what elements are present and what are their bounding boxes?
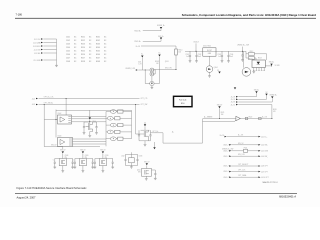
svg-text:E565: E565: [96, 51, 100, 53]
wire J4-2 net: [39, 98, 140, 100]
svg-text:Q510: Q510: [105, 155, 109, 157]
wire output across: [163, 142, 203, 144]
resistor R561: [116, 111, 117, 113]
svg-text:J4-6 SW_: J4-6 SW_: [261, 156, 268, 158]
wire output down: [162, 133, 164, 143]
ground C533: [221, 61, 224, 63]
svg-text:SW_5V: SW_5V: [238, 143, 244, 145]
svg-text:C534: C534: [230, 54, 234, 56]
capacitor C555: [149, 130, 151, 140]
wire SEL to bus: [43, 52, 56, 54]
wire FL501 bottom: [126, 165, 138, 167]
wire U502 left pin: [44, 119, 57, 121]
power arrow net stub: [154, 142, 156, 147]
wire supply to Q506: [89, 120, 91, 123]
wire comparator supply drop: [219, 108, 221, 118]
wire SW_B+ row 2: [143, 40, 161, 42]
wire B+_OK row: [227, 136, 258, 138]
transistor Q508: [59, 159, 66, 166]
wire Q506 source: [90, 131, 93, 133]
svg-text:B+: B+: [141, 54, 143, 56]
svg-text:U505-7: U505-7: [223, 144, 228, 146]
svg-text:C558: C558: [139, 155, 143, 157]
svg-text:7-186: 7-186: [16, 14, 23, 17]
wire Q507 gate feed across: [136, 133, 145, 135]
svg-text:UNSW_B+_SW: UNSW_B+_SW: [237, 45, 249, 47]
svg-text:1uH: 1uH: [139, 64, 142, 66]
svg-text:R512: R512: [250, 51, 254, 53]
wire VR501 to ground: [151, 86, 153, 87]
resistor R512: [246, 53, 248, 55]
wire regulator rail: [185, 50, 246, 52]
svg-text:10uF: 10uF: [230, 56, 234, 58]
svg-text:5V SW: 5V SW: [275, 65, 280, 67]
svg-text:E566: E566: [96, 54, 100, 56]
svg-text:SW_5V: SW_5V: [51, 145, 57, 147]
svg-text:U505-7: U505-7: [223, 156, 228, 158]
wire OPT_DATA row: [231, 176, 258, 178]
wire loop left of U502: [55, 110, 57, 138]
transistor Q504: [206, 66, 213, 73]
pin arrow J4-1: [258, 136, 260, 138]
svg-text:E568: E568: [96, 61, 100, 63]
capacitor C551: [84, 121, 90, 123]
svg-text:J4-1 B+_: J4-1 B+_: [261, 136, 268, 138]
capacitor C559: [152, 169, 156, 171]
ground VR501: [151, 87, 154, 89]
svg-text:Q509: Q509: [85, 155, 89, 157]
svg-text:OPT_SW_B+: OPT_SW_B+: [44, 102, 54, 104]
svg-text:E562: E562: [96, 40, 100, 42]
svg-text:J4-4 SW_: J4-4 SW_: [261, 145, 268, 147]
svg-text:F501: F501: [244, 147, 248, 149]
wire Q501 to VR501: [151, 76, 153, 81]
wire Q507 source bus: [139, 140, 151, 142]
wire VR504 pin comb: [253, 68, 255, 71]
svg-text:B50: B50: [181, 103, 184, 105]
svg-text:UNSW_9.3V: UNSW_9.3V: [125, 68, 135, 70]
pin arrow J4-10: [258, 176, 260, 178]
wire flag row 5 to bus: [123, 138, 132, 140]
svg-text:OPT_SW: OPT_SW: [141, 104, 148, 106]
wire flag row 2 to bus: [120, 117, 132, 119]
wire flag row 3 to bus: [123, 124, 132, 126]
ground Q509: [82, 171, 85, 173]
wire Q510 source: [102, 166, 104, 171]
wire flag row 4 to bus: [120, 131, 132, 133]
svg-text:R510: R510: [178, 49, 182, 51]
wire Q508 source: [62, 166, 64, 171]
wire Q501 output: [154, 69, 176, 71]
svg-text:J2-4 CSX: J2-4 CSX: [34, 49, 42, 51]
capacitor C531: [189, 51, 191, 60]
ground Q506: [88, 135, 91, 137]
svg-text:R551: R551: [81, 37, 85, 39]
svg-text:R552: R552: [81, 40, 85, 42]
svg-text:OPT_SELECT: OPT_SELECT: [238, 164, 248, 166]
svg-text:Schematics, Component Location: Schematics, Component Location Diagrams,…: [182, 13, 316, 17]
op-amp U504: [236, 116, 240, 120]
svg-text:U505-7: U505-7: [223, 171, 228, 173]
svg-text:J4-8 OPT: J4-8 OPT: [261, 166, 268, 168]
capacitor C557: [136, 154, 138, 165]
power arrow Q506 supply: [89, 110, 91, 117]
wire J4-3 net: [39, 104, 140, 106]
fuse F501: [244, 149, 248, 152]
resistor R562: [113, 117, 114, 119]
wire R510 to Q503 output node: [175, 55, 177, 70]
ground C552: [95, 133, 98, 135]
wire supply to Q511: [146, 165, 148, 168]
transistor Q501 lower: [150, 72, 154, 76]
wire J5-4 down: [238, 104, 272, 106]
wire Q511 source: [145, 176, 147, 178]
capacitor C556: [124, 154, 126, 165]
wire Q507 gate feed down: [135, 104, 136, 105]
ground Q507: [144, 144, 147, 146]
svg-text:J2-5 SEL: J2-5 SEL: [34, 53, 41, 55]
resistor R522: [245, 117, 248, 119]
svg-text:C531: C531: [185, 54, 189, 56]
svg-text:R521: R521: [221, 112, 225, 114]
svg-text:R553: R553: [81, 44, 85, 46]
svg-text:C541: C541: [66, 37, 70, 39]
svg-text:OPT_B+_CTL: OPT_B+_CTL: [44, 96, 54, 98]
svg-text:E563: E563: [96, 44, 100, 46]
svg-text:47K: 47K: [273, 111, 276, 113]
svg-text:C545: C545: [66, 51, 70, 53]
wire FL501 top: [126, 153, 138, 155]
capacitor C532: [195, 51, 197, 60]
svg-text:J4-3: J4-3: [32, 104, 35, 106]
svg-text:J4-2: J4-2: [32, 98, 35, 100]
svg-text:C546: C546: [66, 54, 70, 56]
svg-text:R558: R558: [81, 61, 85, 63]
wire J5-3 to supply: [238, 101, 272, 103]
wire OPT_CLK row: [231, 171, 258, 173]
svg-text:Q504: Q504: [214, 67, 218, 69]
svg-text:OPT_CTL: OPT_CTL: [141, 98, 148, 100]
svg-text:SW_9.3V: SW_9.3V: [165, 68, 173, 70]
wire J5-1 to supply: [238, 96, 256, 98]
wire U502 feed vertical: [65, 99, 67, 116]
wire UNSW_B+ row 1: [143, 30, 161, 32]
transistor Q505: [242, 68, 251, 77]
wire Q509 source: [82, 166, 84, 171]
ground bus ground symbol: [55, 65, 58, 67]
wire DATA to bus: [43, 42, 56, 44]
power arrow SW_B+: [160, 38, 162, 40]
svg-text:SW_B+: SW_B+: [269, 61, 275, 63]
capacitor Q508 right: [66, 158, 72, 160]
resistor R513: [246, 57, 248, 59]
power arrow supply B: [265, 94, 267, 96]
wire U502 outputs: [72, 115, 107, 117]
svg-text:R513: R513: [258, 58, 262, 60]
svg-text:C542: C542: [66, 40, 70, 42]
svg-text:R504 B+: R504 B+: [134, 31, 141, 33]
wire comparator ref input: [203, 121, 235, 123]
ground Q508 left cap: [53, 167, 56, 169]
wire R508 into VR501: [154, 83, 159, 85]
transistor Q501 upper: [150, 68, 154, 72]
ground Q508: [61, 171, 64, 173]
wire ground bus vertical: [56, 39, 58, 65]
svg-text:OPT_B+: OPT_B+: [152, 131, 158, 133]
header rule: [15, 17, 316, 19]
resistor R563: [116, 124, 117, 126]
wire SW_5V row: [231, 144, 258, 146]
power arrow option net: [234, 87, 236, 89]
wire FL501 stub top: [130, 152, 132, 154]
svg-text:R556: R556: [81, 54, 85, 56]
capacitor C552: [93, 121, 97, 123]
svg-text:SW_B+: SW_B+: [158, 36, 164, 38]
ground C531: [189, 61, 192, 63]
footer rule: [15, 193, 297, 195]
capacitor C554: [138, 130, 140, 140]
net flag E571: [106, 111, 111, 113]
svg-text:August 24, 2007: August 24, 2007: [17, 195, 36, 199]
transistor Q506: [86, 122, 93, 132]
transistor Q507: [141, 129, 150, 131]
inductor L501 drop: [141, 58, 143, 70]
svg-text:10uF: 10uF: [198, 56, 202, 58]
wire loop top horizontal: [56, 109, 132, 111]
svg-text:U501 7805: U501 7805: [203, 45, 211, 47]
power arrow supply C: [271, 96, 273, 98]
wire OPT_SELECT row: [231, 165, 258, 167]
wire left return drop to cell: [62, 147, 64, 150]
svg-text:10K: 10K: [221, 114, 224, 116]
transistor Q510: [99, 159, 106, 166]
ground FL501: [130, 166, 132, 167]
svg-text:SW_9.3V: SW_9.3V: [238, 154, 246, 156]
transistor Q509: [79, 159, 86, 166]
svg-text:Fail Safe: Fail Safe: [179, 100, 186, 102]
net flag E573: [106, 124, 111, 126]
svg-text:R522: R522: [249, 117, 253, 119]
svg-text:R505 B+: R505 B+: [134, 41, 141, 43]
svg-text:SW_B+: SW_B+: [254, 89, 260, 91]
svg-text:C543: C543: [66, 44, 70, 46]
capacitor Q510 right: [107, 158, 113, 160]
wire VR504 to 5V out: [265, 65, 271, 67]
wire Q507 to ground: [144, 141, 146, 144]
filter FL501: [129, 158, 135, 163]
ground Q504: [208, 76, 211, 78]
wire supply to Q510: [102, 154, 104, 159]
wire output up to comparator: [202, 119, 204, 143]
svg-text:Q501: Q501: [165, 61, 169, 63]
capacitor C534: [227, 51, 229, 60]
svg-text:J5-1 E: J5-1 E: [231, 96, 236, 98]
svg-text:J4-5 UNS: J4-5 UNS: [261, 151, 268, 153]
ground Q510 right cap: [111, 167, 114, 169]
ground C535: [241, 60, 244, 62]
svg-text:Q508: Q508: [65, 155, 69, 157]
capacitor C535: [241, 51, 243, 59]
ground Q511: [145, 179, 148, 181]
pin arrow J4-4: [258, 144, 260, 146]
svg-text:E561: E561: [96, 37, 100, 39]
wire SW_9.3V row: [231, 155, 258, 157]
resistor R523: [259, 117, 262, 119]
ground Q510 left cap: [94, 167, 97, 169]
wire MISO to bus: [43, 45, 56, 47]
net flag E574: [106, 131, 108, 133]
svg-text:U500-8: U500-8: [193, 42, 198, 44]
svg-text:U505-7: U505-7: [223, 150, 228, 152]
wire Q504 emitter: [209, 72, 211, 75]
wire U503 outputs: [73, 138, 107, 140]
power arrow supply A: [255, 91, 257, 93]
svg-text:B+: B+: [159, 53, 161, 55]
svg-text:U505-7: U505-7: [223, 166, 228, 168]
wire supply to Q509: [82, 154, 84, 159]
svg-text:MAEPF-27782-O: MAEPF-27782-O: [263, 181, 279, 184]
svg-text:L501: L501: [138, 62, 142, 64]
svg-text:R554: R554: [81, 47, 85, 49]
svg-text:J4-9 OPT: J4-9 OPT: [261, 171, 268, 173]
pin arrow J4-5: [258, 150, 260, 152]
svg-text:J2-3 MISO: J2-3 MISO: [33, 46, 41, 48]
wire left return horizontal: [44, 146, 63, 148]
net flag E575: [106, 138, 111, 140]
resistor R564: [113, 131, 114, 133]
wire CSX to bus: [43, 49, 56, 51]
note box fail safe: [174, 96, 193, 106]
svg-text:E567: E567: [96, 58, 100, 60]
ground C551: [83, 133, 86, 135]
wire input to Q501: [138, 69, 150, 71]
svg-text:.1uF: .1uF: [186, 56, 189, 58]
svg-text:R557: R557: [81, 58, 85, 60]
ground Q509 left cap: [74, 167, 77, 169]
svg-text:.1uF: .1uF: [218, 56, 221, 58]
transistor Q511: [142, 169, 152, 177]
svg-text:U505-7: U505-7: [223, 177, 228, 179]
wire U501 ground leg: [209, 56, 211, 65]
svg-text:OPT_CLK: OPT_CLK: [238, 170, 246, 172]
pin arrow J4-8: [258, 165, 260, 167]
net flag E572: [106, 117, 108, 119]
capacitor Q510 left: [95, 158, 99, 160]
wire Q507 output: [151, 132, 164, 134]
wire J5-2 to supply: [238, 98, 266, 100]
capacitor Q509 left: [75, 158, 79, 160]
wire flag bus vertical: [131, 110, 133, 138]
power arrow UNSW_B+: [160, 27, 162, 29]
svg-text:C532: C532: [198, 54, 202, 56]
svg-text:Figure 7-110 HUE4040A Secure: Figure 7-110 HUE4040A Secure Interface B…: [17, 186, 88, 190]
svg-text:R555: R555: [81, 51, 85, 53]
svg-text:J4-10 OPT: J4-10 OPT: [261, 177, 269, 179]
svg-text:UNSW_B+_SW: UNSW_B+_SW: [222, 148, 234, 150]
capacitor Q509 right: [87, 158, 93, 160]
wire comparator input row: [203, 118, 236, 120]
pin arrow J4-6: [258, 155, 260, 157]
ground C559: [154, 178, 157, 180]
ground VR504: [253, 69, 255, 72]
svg-text:C533: C533: [217, 54, 221, 56]
wire supply to Q507: [144, 126, 146, 130]
svg-text:C547: C547: [66, 58, 70, 60]
wire comparator output: [240, 118, 272, 120]
svg-text:E564: E564: [96, 47, 100, 49]
svg-text:J2-9 GND: J2-9 GND: [33, 60, 41, 62]
wire flag feeder vertical: [105, 112, 107, 147]
svg-text:SW_5V: SW_5V: [217, 104, 223, 106]
ground Q510: [102, 171, 105, 173]
power arrow Q507 supply: [144, 122, 146, 124]
wire CLK to bus: [43, 38, 56, 40]
svg-text:C544: C544: [66, 47, 70, 49]
svg-text:UNSW_B+: UNSW_B+: [269, 95, 277, 97]
resistor R510: [175, 49, 178, 55]
svg-text:Q511: Q511: [137, 170, 141, 172]
svg-text:UNSW_B+: UNSW_B+: [157, 25, 165, 27]
svg-text:C548: C548: [66, 61, 70, 63]
svg-text:B+_OK: B+_OK: [262, 117, 267, 119]
pin arrow 9.3V input: [136, 69, 138, 71]
resistor R565: [116, 138, 117, 140]
svg-text:J2-1 CLK: J2-1 CLK: [34, 39, 42, 41]
wire GND to bus: [43, 59, 56, 61]
wire Q501 collector tie: [154, 73, 155, 75]
wire rail split vertical: [245, 51, 247, 58]
wire Q501 base loop left: [144, 70, 146, 84]
svg-text:10K: 10K: [156, 63, 159, 65]
wire left return vertical: [43, 105, 45, 147]
svg-text:R520: R520: [273, 109, 277, 111]
ground Q508 right cap: [71, 167, 74, 169]
pin arrow J4-9: [258, 171, 260, 173]
svg-text:100: 100: [178, 52, 181, 54]
wire corner down to R510: [175, 46, 177, 49]
svg-text:R508: R508: [155, 61, 159, 63]
wire rail to Q505: [242, 51, 244, 67]
wire R512 to VR504: [266, 54, 268, 60]
wire flag row 1 to bus: [123, 111, 132, 113]
ground C532: [195, 61, 198, 63]
svg-text:L502: L502: [121, 155, 125, 157]
diode VR501: [150, 81, 154, 85]
resistor R508 drop: [159, 57, 161, 84]
svg-text:IN OUT: IN OUT: [207, 50, 212, 52]
wire supply to Q508: [62, 154, 64, 159]
capacitor C533: [221, 51, 223, 60]
svg-text:6816533H01-A: 6816533H01-A: [279, 196, 296, 199]
wire supply row 3: [141, 45, 176, 47]
capacitor Q508 left: [55, 158, 59, 160]
ground Q509 right cap: [91, 167, 94, 169]
svg-text:SW_5V: SW_5V: [144, 161, 150, 163]
ground C534: [227, 61, 230, 63]
